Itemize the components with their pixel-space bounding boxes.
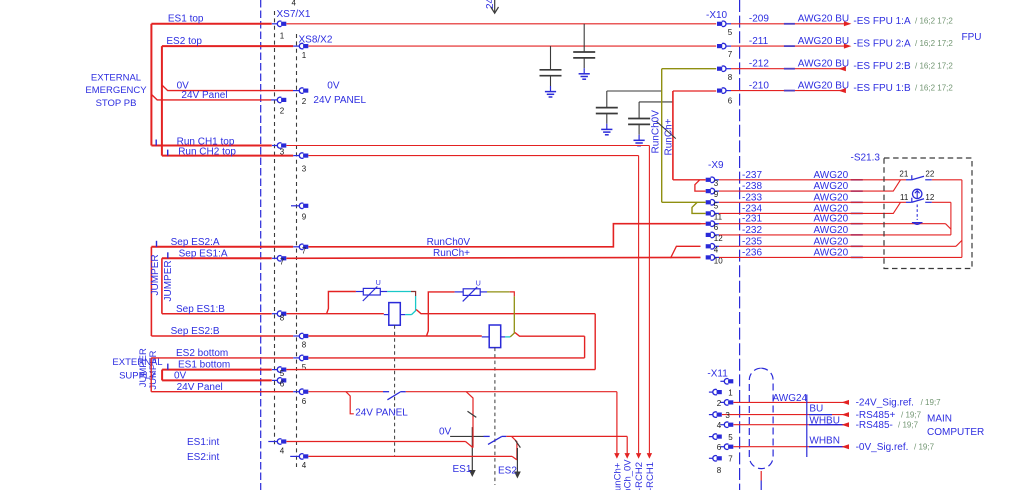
svg-text:XS8/X2: XS8/X2	[299, 35, 333, 46]
svg-text:24V PANEL: 24V PANEL	[313, 95, 366, 106]
wire ES2:int join diagonal	[512, 456, 517, 460]
wire -RCH1 vertical	[648, 146, 650, 454]
pin XS8/X2 pin7	[299, 244, 308, 250]
wire Run CH2 top (left)	[162, 155, 293, 157]
svg-text:3: 3	[302, 165, 307, 174]
wire 24V Panel bottom left	[151, 391, 293, 393]
svg-text:-RCH1: -RCH1	[645, 462, 656, 490]
cable divider line	[806, 395, 808, 458]
wire Run CH1 to right	[286, 145, 649, 147]
svg-text:-0V_Sig.ref.: -0V_Sig.ref.	[856, 442, 909, 453]
pin XS8/X2 pin1	[299, 43, 308, 48]
svg-text:AWG20: AWG20	[814, 192, 849, 203]
wire ES1 top (left)	[151, 23, 271, 25]
svg-text:24V Panel: 24V Panel	[177, 382, 223, 393]
svg-text:ES1: ES1	[453, 464, 472, 475]
svg-text:6: 6	[728, 97, 733, 106]
svg-text:2: 2	[280, 106, 285, 115]
svg-text:RunCh0V: RunCh0V	[427, 237, 471, 248]
corner varistor1 loop	[411, 292, 416, 297]
pin -X11 pin2	[720, 401, 724, 403]
wire Run CH1 top (left)	[151, 145, 271, 147]
wire -233 to contact 11	[719, 201, 906, 203]
node -RS485+	[842, 412, 850, 417]
wire -RCH2 vertical	[638, 156, 640, 454]
wire RunCh+ feed vertical	[672, 91, 674, 180]
pin -X9 pin4 row -235	[706, 244, 715, 250]
svg-text:1: 1	[280, 32, 285, 41]
svg-text:RunCh0V: RunCh0V	[650, 110, 661, 154]
node -RCH1 arrow	[647, 453, 652, 459]
pin -X9 pin5 row -233	[706, 200, 715, 206]
svg-text:8: 8	[302, 340, 307, 349]
svg-text:/ 19;7: / 19;7	[914, 443, 935, 452]
svg-text:EXTERNAL: EXTERNAL	[91, 72, 141, 83]
pin XS8/X2 pin2	[299, 88, 308, 93]
svg-text:-ES FPU 1:B: -ES FPU 1:B	[853, 83, 911, 94]
pin XS8/X2 pin8	[299, 333, 308, 339]
wire Sep ES2:B to relay K2	[308, 335, 481, 337]
svg-text:-ES FPU 2:B: -ES FPU 2:B	[853, 61, 911, 72]
pin -X9 pin12 row -232	[706, 232, 715, 237]
connector XS7/X1 dashed line	[274, 11, 276, 445]
svg-text:ES2:int: ES2:int	[187, 452, 219, 463]
wire Sep ES1:B continues right	[416, 310, 595, 314]
svg-text:U: U	[376, 280, 381, 287]
svg-text:Run CH2 top: Run CH2 top	[178, 146, 236, 157]
contact slash ES1 branch	[468, 411, 477, 417]
svg-text:ES2 top: ES2 top	[166, 36, 202, 47]
wire 24V PANEL net stub	[346, 392, 354, 414]
pin -X9 pin6 row -231	[706, 221, 715, 227]
pin -X11 pin6	[720, 446, 724, 448]
svg-text:6: 6	[280, 379, 285, 388]
svg-text:-238: -238	[742, 181, 762, 192]
wire olive vertical loop2	[513, 296, 515, 330]
relay coil K2	[489, 325, 501, 348]
capacitor shield C-C with ground	[596, 91, 618, 129]
svg-text:3: 3	[714, 179, 719, 188]
wire ES1 bottom left	[162, 369, 272, 371]
pin -X11 pin4	[720, 424, 724, 426]
pin -X11 pin7	[709, 457, 713, 459]
svg-text:4: 4	[280, 447, 285, 456]
node -RCH2 arrow	[636, 453, 641, 459]
relay K1 right lead cyan	[405, 314, 411, 316]
pin -X10 pin5 row -209	[717, 21, 726, 27]
wire Sep ES1:B loop down	[594, 314, 596, 370]
svg-text:4: 4	[302, 461, 307, 470]
pin -X10 pin8 row -212	[717, 66, 726, 72]
pin -X9 pin9 row -238	[706, 188, 715, 193]
svg-text:5: 5	[302, 363, 307, 372]
wire Sep ES2:A left	[151, 246, 293, 248]
node -RunCh+ arrow	[614, 453, 619, 459]
actuator arrow ES1	[471, 427, 473, 470]
wire: panel boundary dash line right	[739, 0, 741, 490]
wire -236	[719, 256, 962, 258]
relay K2 left lead	[482, 336, 489, 338]
contact slash ES2 branch	[515, 440, 520, 447]
tick Run CH1	[155, 140, 157, 146]
svg-text:7: 7	[728, 455, 733, 464]
corner varistor2 loop	[510, 292, 515, 297]
X9 feed fork -237/-238	[673, 179, 706, 181]
svg-text:/ 16;2 17;2: / 16;2 17;2	[915, 17, 953, 26]
cable marker diagonal	[656, 121, 676, 139]
svg-text:-X11: -X11	[707, 368, 728, 379]
connector XS8/X2 dashed line	[296, 34, 298, 467]
wire 24V after contact	[406, 391, 617, 393]
wire jumper ES2 bottom to 24V Panel	[150, 358, 152, 392]
svg-text:-RS485-: -RS485-	[856, 420, 893, 431]
svg-text:ES2 bottom: ES2 bottom	[176, 348, 228, 359]
svg-text:24V Panel: 24V Panel	[181, 90, 227, 101]
svg-text:AWG20: AWG20	[814, 170, 849, 181]
node -ES FPU 2:A	[844, 44, 852, 49]
corner olive to relay2 lead	[510, 330, 514, 337]
wire 0V bottom	[162, 379, 272, 381]
svg-text:EMERGENCY: EMERGENCY	[85, 85, 147, 96]
pin XS7/X1 pin6	[277, 378, 286, 383]
svg-text:24V PANEL: 24V PANEL	[355, 408, 408, 419]
wire ES2 bottom right	[308, 357, 584, 359]
wire ES2 branch vertical	[512, 436, 517, 460]
wire -234 join	[719, 202, 901, 213]
pin -X9 pin10 row -236	[706, 255, 715, 261]
varistor1 left lead	[356, 291, 363, 293]
relay K1 left lead	[384, 314, 389, 316]
svg-text:XS7/X1: XS7/X1	[277, 9, 311, 20]
svg-text:AWG20: AWG20	[814, 214, 849, 225]
svg-text:RunCh+: RunCh+	[433, 248, 470, 259]
wire 24V Panel to contact	[308, 391, 383, 393]
tick Sep ES2:A	[156, 241, 158, 247]
wire cyan vertical loop1	[415, 296, 417, 308]
svg-text:/ 19;7: / 19;7	[898, 421, 919, 430]
wire jumper Sep ES2:A to Sep ES2:B	[150, 247, 152, 336]
wire -231 join diagonal	[946, 224, 951, 229]
svg-text:6: 6	[302, 397, 307, 406]
svg-text:22: 22	[925, 169, 934, 178]
pin XS7/X1 pin5	[277, 367, 286, 373]
svg-text:3: 3	[725, 411, 730, 420]
wire Sep ES2:B loop down	[584, 336, 586, 358]
wire 24V Panel top	[151, 94, 271, 100]
wire olive to X10 pin8	[662, 68, 717, 70]
relay coil K1	[389, 303, 401, 326]
svg-text:-X10: -X10	[706, 10, 728, 21]
svg-text:/ 19;7: / 19;7	[901, 410, 922, 419]
pin -X10 pin6 row -210	[717, 88, 726, 94]
wire -237 to contact 21	[719, 179, 906, 181]
svg-text:5: 5	[728, 433, 733, 442]
svg-text:FPU: FPU	[962, 32, 982, 43]
relay K2 right lead	[501, 336, 505, 338]
node -ES FPU 2:B	[838, 66, 846, 71]
svg-text:4: 4	[717, 421, 722, 430]
pin XS7/X1 pin1	[277, 21, 286, 26]
pin XS7/X1 pin8	[277, 311, 286, 317]
svg-text:-ES FPU 1:A: -ES FPU 1:A	[853, 16, 911, 27]
svg-text:WHBN: WHBN	[809, 436, 840, 447]
varistor R1	[363, 287, 381, 302]
pin XS7/X1 pin4	[277, 439, 286, 444]
cable tail red	[760, 471, 762, 481]
wire Sep ES1:A left	[162, 257, 272, 259]
svg-text:RunCh+: RunCh+	[663, 118, 674, 155]
mechanical link K2 dashed	[494, 348, 496, 485]
svg-text:AWG20 BU: AWG20 BU	[798, 36, 849, 47]
wire Sep ES1:B left	[162, 313, 272, 315]
svg-text:ES1 top: ES1 top	[168, 14, 204, 25]
wire Sep ES2:B left	[151, 335, 293, 337]
node -RunCh_0V arrow	[625, 453, 630, 459]
X9 feed fork -233/-234 olive	[662, 201, 706, 203]
pin XS8/X2 pin9 stub	[291, 205, 299, 207]
svg-text:-X9: -X9	[708, 160, 724, 171]
svg-text:9: 9	[302, 212, 307, 221]
capacitor shield C-B with ground	[540, 46, 562, 91]
svg-text:8: 8	[728, 73, 733, 82]
wire Sep ES1:B to relay K1	[286, 313, 383, 315]
pin -X9 pin3 row -237	[706, 177, 715, 183]
wire Sep ES2:B continues right	[515, 333, 585, 337]
wire -232	[719, 234, 951, 236]
svg-text:/ 16;2 17;2: / 16;2 17;2	[915, 83, 953, 92]
svg-text:/ 16;2 17;2: / 16;2 17;2	[915, 39, 953, 48]
cable tail blue	[760, 481, 762, 491]
wire -235 join diagonal	[956, 240, 962, 246]
svg-text:JUMPER: JUMPER	[150, 254, 161, 295]
svg-text:4: 4	[714, 245, 719, 254]
wire shield link 2	[639, 101, 673, 103]
svg-text:Sep ES2:B: Sep ES2:B	[171, 326, 220, 337]
X9 feed fork -231/-232	[701, 223, 706, 225]
svg-text:AWG20: AWG20	[814, 181, 849, 192]
svg-text:U: U	[476, 280, 481, 287]
pin XS8/X2 pin9	[299, 203, 308, 208]
svg-text:5: 5	[728, 28, 733, 37]
svg-text:5: 5	[714, 201, 719, 210]
svg-text:-ES FPU 2:A: -ES FPU 2:A	[853, 38, 911, 49]
svg-text:7: 7	[728, 50, 733, 59]
svg-text:0V: 0V	[327, 81, 340, 92]
pin XS8/X2 pin3	[299, 153, 308, 159]
wire ES2 top to X10	[308, 45, 716, 47]
svg-text:0V: 0V	[439, 427, 452, 438]
wire 0V actuator line	[450, 435, 483, 437]
svg-text:-233: -233	[742, 192, 762, 203]
pin XS7/X1 pin7	[277, 256, 286, 262]
svg-text:6: 6	[714, 223, 719, 232]
contact S1 on 24V Panel wire	[383, 391, 389, 393]
wire branch RunCh+ to X9 pin4	[671, 246, 701, 258]
wire RunCh+ down vertical	[616, 392, 618, 454]
tick ES1 bottom	[167, 364, 169, 370]
wire -238 join	[719, 180, 901, 191]
mechanical link K1 dashed	[394, 325, 396, 457]
svg-text:MAIN: MAIN	[927, 413, 952, 424]
svg-text:-RunCh_0V: -RunCh_0V	[623, 459, 634, 490]
wire bus ES2 (inner) vertical	[161, 46, 163, 156]
svg-text:-231: -231	[742, 214, 762, 225]
wire -235	[719, 245, 956, 247]
cable -W AWG24 capsule	[749, 368, 773, 468]
svg-text:-210: -210	[749, 81, 769, 92]
svg-text:7: 7	[302, 246, 307, 255]
pin XS8/X2 pin4	[299, 454, 308, 459]
pin -X11 pin1	[709, 391, 713, 393]
pin XS8/X2 pin5	[299, 355, 308, 360]
wire RunCh0V to X9	[308, 224, 700, 247]
svg-text:-232: -232	[742, 225, 762, 236]
wire after ES2 contact	[506, 435, 627, 437]
svg-text:5: 5	[280, 369, 285, 378]
pin XS8/X2 pin4 stub	[290, 455, 299, 457]
svg-text:8: 8	[717, 466, 722, 475]
wire 0V top	[162, 85, 293, 91]
svg-text:2: 2	[302, 97, 307, 106]
svg-text:JUMPER: JUMPER	[148, 350, 159, 389]
pin XS8/X2 pin6	[299, 389, 308, 395]
svg-text:-211: -211	[749, 36, 769, 47]
wire varistor2 loop left	[427, 292, 455, 336]
varistor1 right lead	[380, 291, 387, 293]
svg-text:Sep ES1:A: Sep ES1:A	[179, 249, 228, 260]
svg-text:ES1 bottom: ES1 bottom	[178, 360, 230, 371]
svg-text:Sep ES1:B: Sep ES1:B	[176, 304, 225, 315]
svg-text:7: 7	[280, 257, 285, 266]
svg-text:21: 21	[899, 169, 908, 178]
wire ES1 top to X10	[286, 23, 716, 25]
node -RS485-	[842, 422, 850, 427]
wire ES2:int	[308, 455, 512, 457]
svg-text:/ 16;2 17;2: / 16;2 17;2	[915, 61, 953, 70]
svg-text:1: 1	[302, 51, 307, 60]
svg-text:9: 9	[714, 190, 719, 199]
mushroom plunger dashed	[916, 205, 918, 221]
pin XS7/X1 pin2	[277, 97, 286, 103]
varistor R2	[463, 287, 481, 302]
svg-text:-24V_Sig.ref.: -24V_Sig.ref.	[856, 398, 914, 409]
wire: panel boundary dash line left	[260, 0, 262, 490]
svg-text:/ 19;7: / 19;7	[921, 398, 942, 407]
pin -X11 pin5	[709, 436, 713, 438]
svg-text:AWG20: AWG20	[814, 225, 849, 236]
pin -X11 pin3	[709, 414, 713, 416]
svg-text:COMPUTER: COMPUTER	[927, 427, 984, 438]
svg-text:-236: -236	[742, 247, 762, 258]
pin XS7/X1 pin4 stub	[268, 441, 277, 443]
pin XS7/X1 pin3	[277, 143, 286, 149]
svg-text:Sep ES2:A: Sep ES2:A	[171, 237, 220, 248]
wire Run CH2 to right	[308, 155, 638, 157]
relay K2 right lead cyan	[505, 336, 510, 338]
svg-text:4: 4	[292, 0, 297, 8]
wire ES2 top (left)	[162, 45, 293, 47]
svg-text:AWG24: AWG24	[773, 393, 808, 404]
svg-text:AWG20: AWG20	[814, 247, 849, 258]
wire -231	[719, 223, 946, 225]
pin -X10 pin7 row -211	[717, 43, 726, 49]
node -ES FPU 1:B	[838, 88, 846, 93]
svg-text:-RCH2: -RCH2	[634, 462, 645, 490]
wire olive RunCh0V vertical	[661, 69, 663, 203]
svg-text:JUMPER: JUMPER	[163, 260, 174, 301]
svg-text:-209: -209	[749, 14, 769, 25]
wire shield link 1	[607, 90, 662, 92]
svg-text:12: 12	[925, 193, 934, 202]
wire RunCh_0V down vertical	[626, 436, 628, 453]
svg-text:11: 11	[900, 193, 909, 202]
svg-text:-212: -212	[749, 59, 769, 70]
wire RunCh+ to X9 pin10	[286, 256, 700, 259]
wire varistor1 loop left	[327, 292, 356, 314]
wire olive varistor2 to corner	[487, 291, 510, 293]
svg-text:ES1:int: ES1:int	[187, 437, 219, 448]
wire jumper Sep ES1:A to Sep ES1:B	[161, 258, 163, 313]
pin -X9 pin11 row -234	[706, 211, 715, 217]
node -ES FPU 1:A	[844, 21, 852, 26]
node -0V_Sig.ref.	[842, 444, 850, 449]
svg-text:AWG20: AWG20	[814, 236, 849, 247]
capacitor shield C-A with ground	[573, 24, 595, 74]
wire ES1:int	[286, 441, 465, 443]
wire contact12 down vertical	[950, 202, 952, 235]
wire ES1:int join diagonal	[466, 442, 473, 448]
svg-text:6: 6	[717, 443, 722, 452]
wire ES1 bottom right	[286, 369, 595, 371]
svg-text:AWG20 BU: AWG20 BU	[798, 14, 849, 25]
svg-text:2: 2	[717, 399, 722, 408]
pin -X11 pintop	[720, 380, 724, 382]
wire to X10 pin6	[673, 90, 716, 92]
capacitor shield C-D with ground	[628, 102, 650, 140]
wire contact22 down vertical	[961, 180, 963, 258]
svg-text:STOP PB: STOP PB	[96, 98, 137, 109]
svg-text:-S21.3: -S21.3	[851, 153, 881, 164]
wire bus ES1 (outer) vertical	[150, 24, 152, 146]
tick Run CH2	[167, 150, 169, 156]
wire cyan varistor1 to corner	[387, 291, 411, 293]
wire jumper ES1 bottom to 0V	[161, 370, 163, 381]
node -24V_Sig.ref.	[842, 400, 850, 405]
svg-text:-235: -235	[742, 236, 762, 247]
varistor2 left lead	[455, 291, 464, 293]
wire ES1 branch vertical	[466, 392, 473, 448]
tick Sep ES1:A	[167, 252, 169, 258]
svg-text:1: 1	[728, 388, 733, 397]
svg-text:-237: -237	[742, 170, 762, 181]
varistor2 right lead	[480, 291, 487, 293]
contact S2 ES2	[484, 435, 490, 437]
svg-text:8: 8	[280, 313, 285, 322]
svg-text:ES2: ES2	[498, 466, 517, 477]
actuator arrow ES2	[516, 448, 518, 472]
relay K1 right lead	[400, 314, 405, 316]
svg-text:BU: BU	[809, 404, 823, 415]
corner cyan to relay1 lead	[412, 308, 416, 315]
svg-text:0V: 0V	[174, 371, 187, 382]
wire ES2 bottom left	[151, 357, 293, 359]
